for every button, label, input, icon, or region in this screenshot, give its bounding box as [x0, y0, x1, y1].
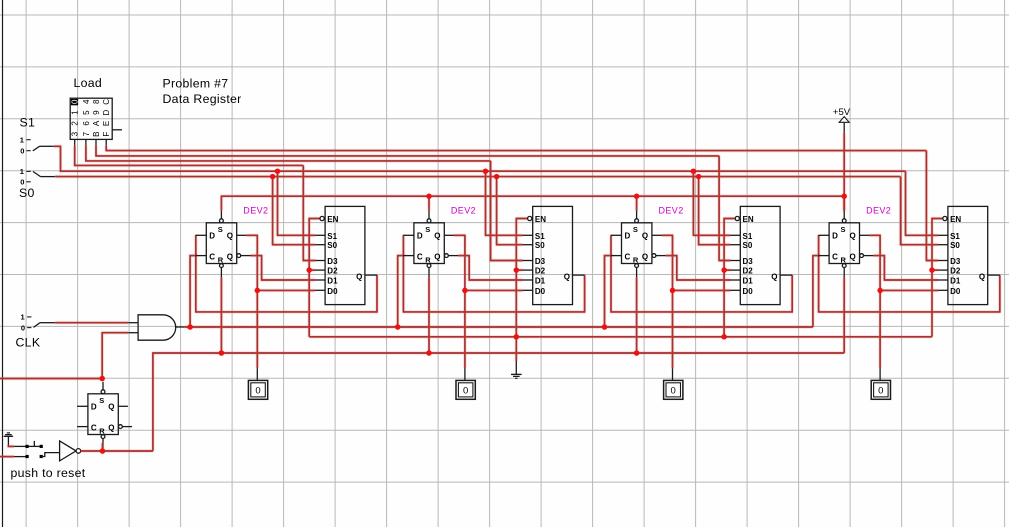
wire mux3 D2 to ground net	[723, 269, 731, 271]
wire node Q1 to probe1	[256, 290, 258, 368]
svg-text:C: C	[209, 252, 215, 261]
junction S0 tap stage1	[270, 174, 276, 180]
probe indicator P4	[871, 368, 890, 399]
junction clock tap stage2	[395, 324, 401, 330]
wire mux3 Q to DFF3 D (feedback)	[611, 235, 792, 312]
wire load bus to mux4 D3	[926, 151, 938, 261]
svg-text:D: D	[417, 232, 423, 241]
wire load bus bit (pin4) to mux4 D3 rail	[106, 146, 926, 151]
junction S1 tap stage2	[483, 168, 489, 174]
wire mux4 EN to ground rail	[932, 219, 942, 337]
wire load bus bit (pin2) to mux2 D3 rail	[86, 146, 491, 161]
wire mux4 D2 to ground net	[931, 269, 938, 271]
svg-text:5: 5	[82, 110, 91, 115]
junction S0 tap stage2	[494, 174, 500, 180]
ground (push button)	[4, 433, 13, 446]
wire S0 tap to mux2	[497, 177, 523, 245]
wire clock rail (AND output)	[185, 326, 813, 328]
switch S1	[20, 135, 54, 155]
AND gate U1 (clock gate)	[128, 315, 185, 340]
svg-text:Problem #7: Problem #7	[163, 77, 229, 91]
svg-text:1: 1	[20, 167, 24, 176]
wire mux2 D2 to ground net	[515, 269, 523, 271]
svg-text:S0: S0	[19, 186, 35, 200]
junction D2/EN stage3	[721, 267, 727, 273]
svg-text:2: 2	[71, 121, 80, 126]
svg-text:S: S	[841, 225, 846, 234]
wire reset rail	[153, 353, 844, 451]
probe indicator P3	[664, 368, 683, 399]
wire reset tap to DFF2 R	[428, 277, 430, 353]
svg-text:S: S	[218, 225, 223, 234]
wire clock tap to DFF3 C	[605, 256, 613, 327]
svg-text:1: 1	[21, 313, 25, 322]
wire AND gate input 2 branch	[102, 333, 128, 380]
wire load bus to mux3 D3	[719, 156, 730, 261]
junction reset rail / DFF5 S / AND in2	[99, 376, 105, 382]
junction Q/D0/probe stage2	[462, 288, 468, 294]
junction D2/EN stage2	[514, 267, 520, 273]
svg-text:C: C	[625, 252, 631, 261]
wire DFF2 Qbar to mux2 D1	[458, 256, 523, 280]
svg-text:0: 0	[878, 386, 883, 397]
svg-text:Q: Q	[979, 272, 985, 281]
svg-text:S0: S0	[327, 241, 337, 250]
svg-text:0: 0	[255, 386, 260, 397]
svg-text:Q: Q	[227, 232, 233, 241]
wire DFF3 Q to mux3 D0	[662, 235, 731, 290]
junction reset tap stage3	[634, 350, 640, 356]
svg-text:F: F	[102, 132, 111, 137]
svg-text:Q: Q	[642, 232, 648, 241]
+5V power symbol	[833, 107, 851, 133]
junction inverter output / DFF5 R	[100, 448, 106, 454]
svg-text:1: 1	[20, 135, 24, 144]
wire reset tap to DFF4 R	[843, 277, 845, 353]
svg-text:C: C	[832, 252, 838, 261]
wire load bus bit (pin1) to mux1 D3 rail	[75, 146, 304, 166]
wire S1 select net	[54, 146, 906, 171]
svg-text:0: 0	[671, 386, 676, 397]
wire DFF3 Qbar to mux3 D1	[666, 256, 731, 280]
wire S0 tap to mux1	[273, 177, 316, 245]
svg-text:Q: Q	[227, 252, 233, 261]
svg-text:S0: S0	[743, 241, 753, 250]
svg-text:S1: S1	[327, 232, 337, 241]
svg-text:D3: D3	[535, 257, 546, 266]
D flip-flop U4 (DEV2)	[818, 211, 873, 277]
svg-text:EN: EN	[950, 215, 961, 224]
svg-text:A: A	[92, 120, 101, 126]
svg-text:0: 0	[463, 386, 468, 397]
svg-text:0: 0	[21, 323, 25, 332]
svg-text:S0: S0	[535, 241, 545, 250]
svg-text:DEV2: DEV2	[866, 206, 891, 216]
wire node Q2 to probe2	[464, 290, 466, 368]
svg-text:S: S	[633, 225, 638, 234]
svg-text:Q: Q	[850, 232, 856, 241]
svg-text:DEV2: DEV2	[243, 206, 268, 216]
switch S0	[20, 167, 55, 186]
svg-text:Q: Q	[108, 423, 114, 432]
junction Q/D0/probe stage1	[255, 288, 261, 294]
inverter U2 (reset buffer)	[60, 441, 81, 461]
wire mux3 EN to ground rail	[724, 219, 735, 337]
wire S1 tap to mux4	[906, 171, 939, 235]
svg-text:S1: S1	[535, 232, 545, 241]
wire ground to button	[8, 445, 14, 446]
svg-text:D0: D0	[535, 287, 546, 296]
svg-text:Q: Q	[850, 252, 856, 261]
wire clock tap to DFF4 C	[813, 256, 820, 327]
svg-text:D0: D0	[743, 287, 754, 296]
wire +5V to S rail and DFF4 S input	[843, 133, 845, 211]
wire S1 tap to mux1	[278, 171, 316, 235]
junction D2/EN stage4	[929, 267, 935, 273]
svg-text:D2: D2	[327, 267, 338, 276]
svg-text:Q: Q	[564, 272, 570, 281]
svg-text:S1: S1	[950, 232, 960, 241]
svg-text:S1: S1	[20, 116, 36, 130]
svg-text:D1: D1	[743, 277, 754, 286]
svg-text:C: C	[91, 423, 97, 432]
wire mux2 Q to DFF2 D (feedback)	[403, 235, 584, 312]
wire inverter output to reset net	[81, 450, 153, 452]
svg-text:DEV2: DEV2	[659, 206, 684, 216]
junction S1 tap stage1	[275, 168, 281, 174]
wire reset tap to DFF1 R	[220, 277, 222, 353]
svg-text:D: D	[209, 232, 215, 241]
wire load bus to mux1 D3	[303, 165, 315, 260]
wire S0 select net	[55, 176, 900, 178]
wire DFF1 Qbar to mux1 D1	[251, 256, 316, 280]
svg-text:D0: D0	[950, 287, 961, 296]
svg-text:9: 9	[92, 110, 101, 115]
junction EN rail stage3	[721, 334, 727, 340]
junction S1 tap stage3	[691, 168, 697, 174]
svg-text:D2: D2	[743, 267, 754, 276]
svg-text:D3: D3	[327, 257, 338, 266]
wire CLK switch to AND input 1	[55, 322, 128, 324]
wire mux2 EN to ground rail	[516, 219, 527, 337]
junction S rail stage2	[426, 193, 432, 199]
junction Q/D0/probe stage3	[670, 288, 676, 294]
svg-text:D1: D1	[327, 277, 338, 286]
svg-text:C: C	[417, 252, 423, 261]
wire clock tap to DFF2 C	[398, 256, 405, 327]
svg-text:push to reset: push to reset	[11, 466, 86, 480]
wire S rail tap to DFF4 S	[843, 196, 845, 211]
wire S1 tap to mux2	[486, 171, 523, 235]
svg-text:1: 1	[71, 110, 80, 115]
svg-text:E: E	[102, 121, 111, 126]
svg-text:3: 3	[71, 131, 80, 136]
wire DFF1 Q to mux1 D0	[246, 235, 315, 290]
svg-text:D0: D0	[327, 287, 338, 296]
svg-text:8: 8	[92, 99, 101, 104]
D flip-flop U2 (DEV2)	[403, 211, 458, 277]
svg-text:D3: D3	[950, 257, 961, 266]
wire inverter out up to DFF5 R	[102, 443, 104, 451]
svg-text:D: D	[91, 403, 97, 412]
svg-text:C: C	[102, 99, 111, 105]
multiplexer MUX1	[315, 206, 377, 304]
D flip-flop U1 (DEV2)	[196, 211, 251, 277]
svg-text:Data Register: Data Register	[163, 92, 242, 106]
svg-text:Q: Q	[434, 252, 440, 261]
wire S0 tap to mux4	[901, 177, 939, 245]
svg-text:S: S	[425, 225, 430, 234]
wire S rail tap to DFF2 S	[428, 196, 430, 211]
svg-text:Q: Q	[434, 232, 440, 241]
wire node Q3 to probe3	[672, 290, 674, 368]
multiplexer MUX2	[523, 206, 585, 304]
svg-text:EN: EN	[327, 215, 338, 224]
svg-text:EN: EN	[535, 215, 546, 224]
junction clock tap stage3	[602, 324, 608, 330]
svg-text:S0: S0	[950, 241, 960, 250]
svg-text:D: D	[625, 232, 631, 241]
junction D2/EN stage1	[306, 267, 312, 273]
svg-text:S: S	[99, 396, 104, 405]
svg-text:4: 4	[82, 99, 91, 104]
svg-text:B: B	[92, 132, 101, 137]
wire EN/clear ground rail	[309, 336, 932, 338]
wire mux1 D2 to ground net	[308, 269, 315, 271]
wire rail to DFF5 S / AND input	[0, 378, 102, 380]
svg-text:D: D	[102, 109, 111, 115]
wire EN rail to ground	[515, 337, 517, 361]
svg-text:Q: Q	[771, 272, 777, 281]
svg-text:D: D	[832, 232, 838, 241]
multiplexer MUX3	[731, 206, 793, 304]
switch CLK	[21, 313, 56, 333]
ground (mux enable rail)	[511, 374, 522, 378]
wire clock tap to DFF1 C	[190, 256, 197, 327]
svg-text:S1: S1	[743, 232, 753, 241]
probe indicator P2	[456, 368, 475, 399]
wire node Q4 to probe4	[879, 290, 881, 368]
svg-text:D1: D1	[950, 277, 961, 286]
wire S rail tap to DFF3 S	[636, 196, 638, 211]
svg-text:DEV2: DEV2	[451, 206, 476, 216]
wire mux1 EN to ground rail	[309, 219, 319, 337]
svg-text:0: 0	[20, 146, 24, 155]
svg-text:D2: D2	[950, 267, 961, 276]
svg-text:D2: D2	[535, 267, 546, 276]
svg-text:Q: Q	[642, 252, 648, 261]
wire DFF4 Qbar to mux4 D1	[873, 256, 938, 280]
wire reset tap to DFF3 R	[636, 277, 638, 353]
wire load bus bit (pin3) to mux3 D3 rail	[96, 146, 719, 156]
wire S1 tap to mux3	[693, 171, 730, 235]
D flip-flop U5 (reset sync)	[77, 382, 132, 449]
junction S rail +5V	[841, 193, 847, 199]
wire DFF4 Q to mux4 D0	[869, 235, 938, 290]
junction S0 tap stage3	[696, 174, 702, 180]
svg-text:+5V: +5V	[833, 107, 851, 118]
svg-text:Load: Load	[74, 76, 103, 90]
svg-text:EN: EN	[743, 215, 754, 224]
D flip-flop U3 (DEV2)	[611, 211, 666, 277]
probe indicator P1	[248, 368, 267, 399]
hex keypad switch "Load"	[70, 98, 122, 145]
push button SW1	[14, 441, 60, 458]
svg-text:Q: Q	[356, 272, 362, 281]
wire mux4 Q to DFF4 D (feedback)	[819, 235, 1000, 312]
junction EN rail / ground	[514, 334, 520, 340]
wire load bus to mux2 D3	[491, 161, 523, 261]
junction reset tap stage1	[219, 350, 225, 356]
junction S rail stage3	[634, 193, 640, 199]
svg-text:D3: D3	[743, 257, 754, 266]
wire S (preset) rail from DFF1 to +5V	[221, 196, 844, 211]
wire left edge to button lower contact	[0, 456, 14, 458]
svg-text:D1: D1	[535, 277, 546, 286]
svg-text:7: 7	[82, 131, 91, 136]
junction reset tap stage2	[426, 350, 432, 356]
junction clock at AND output	[187, 324, 193, 330]
svg-text:CLK: CLK	[16, 336, 41, 350]
wire DFF2 Q to mux2 D0	[454, 235, 523, 290]
svg-text:6: 6	[82, 121, 91, 126]
svg-text:Q: Q	[108, 403, 114, 412]
multiplexer MUX4	[938, 206, 1000, 304]
wire S0 tap to mux3	[699, 177, 731, 245]
sheet border (left edge)	[2, 0, 4, 527]
wire mux1 Q to DFF1 D (feedback)	[196, 235, 377, 312]
svg-text:0: 0	[71, 99, 80, 104]
junction Q/D0/probe stage4	[877, 288, 883, 294]
